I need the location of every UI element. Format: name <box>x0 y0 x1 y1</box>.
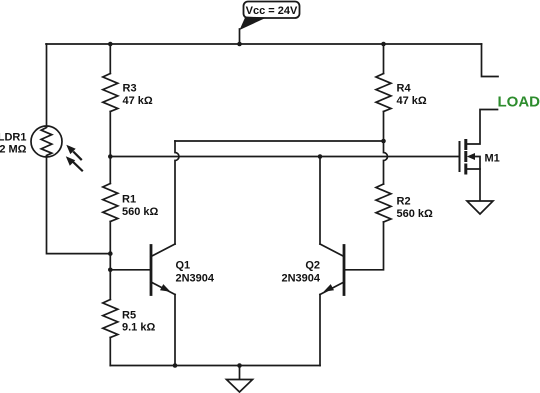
wire R2 bottom lead to Q2 base <box>344 222 384 270</box>
wire Q1 collector riser with hop over node A net <box>175 141 179 244</box>
junction node A at R3/R1 <box>108 154 113 159</box>
svg-text:Vcc = 24V: Vcc = 24V <box>246 5 298 17</box>
svg-text:2 MΩ: 2 MΩ <box>0 144 27 156</box>
junction R4 top on Vcc rail <box>381 42 386 47</box>
junction node C LDR tap <box>108 251 113 256</box>
wire emitter bottom rail <box>110 365 320 367</box>
power flag Vcc callout <box>240 2 300 45</box>
transistor Q1 <box>151 244 175 295</box>
svg-text:Q1: Q1 <box>176 260 191 272</box>
junction R3 top on Vcc rail <box>108 42 113 47</box>
svg-text:47 kΩ: 47 kΩ <box>397 95 427 107</box>
svg-text:R4: R4 <box>397 83 412 95</box>
transistor Q2 <box>320 244 344 295</box>
svg-text:R5: R5 <box>122 310 136 322</box>
svg-text:560 kΩ: 560 kΩ <box>122 206 159 218</box>
svg-text:Q2: Q2 <box>305 260 320 272</box>
wire node A horizontal net to M1 gate <box>110 156 459 158</box>
ground bottom rail <box>227 366 253 393</box>
wire node B down to R2 with hop over node A net <box>384 141 388 184</box>
svg-text:R3: R3 <box>123 83 137 95</box>
wire Vcc drop to upper load terminal stub <box>482 44 499 77</box>
junction Vcc callout tap <box>237 42 242 47</box>
junction ground tap on bottom rail <box>237 363 242 368</box>
wire R3 top lead <box>109 44 111 74</box>
resistor R5 <box>103 300 118 338</box>
wire LDR1 bottom lead to node C <box>47 157 111 254</box>
ground M1 source <box>467 201 493 214</box>
svg-text:M1: M1 <box>485 153 500 165</box>
wire Q1 base lead <box>110 269 151 271</box>
wire Q2 emitter lead <box>319 295 321 366</box>
svg-text:47 kΩ: 47 kΩ <box>123 95 153 107</box>
wire R4 bottom lead to node B <box>383 112 385 142</box>
wire LDR1 top lead <box>46 44 48 126</box>
svg-text:R1: R1 <box>122 194 136 206</box>
wire R4 top lead <box>383 44 385 74</box>
svg-text:560 kΩ: 560 kΩ <box>397 208 434 220</box>
photoresistor LDR1 <box>31 126 82 171</box>
wire node B horizontal net (Q1 collector to R4/R2) <box>175 140 384 142</box>
wire R3 bottom lead to node A <box>109 112 111 157</box>
junction node C Q1 base tap <box>108 268 113 273</box>
svg-text:2N3904: 2N3904 <box>176 273 215 285</box>
svg-text:LOAD: LOAD <box>498 93 540 110</box>
resistor R4 <box>376 74 391 112</box>
wire Q1 emitter lead <box>174 295 176 366</box>
svg-text:R2: R2 <box>397 196 411 208</box>
wire Q2 collector riser to node A net <box>319 157 321 245</box>
mosfet M1 <box>460 110 498 202</box>
svg-text:LDR1: LDR1 <box>0 131 27 143</box>
junction node B at R4/R2 <box>381 139 386 144</box>
wire node A to R1 top <box>109 157 111 184</box>
resistor R1 <box>103 184 118 222</box>
svg-text:2N3904: 2N3904 <box>281 273 320 285</box>
junction Q2 collector on node A net <box>318 154 323 159</box>
resistor R3 <box>103 74 118 112</box>
resistor R2 <box>376 184 391 222</box>
svg-text:9.1 kΩ: 9.1 kΩ <box>122 322 155 334</box>
wire R5 bottom lead <box>109 338 111 366</box>
wire Vcc top rail <box>46 43 482 45</box>
junction Q1 emitter on bottom rail <box>173 363 178 368</box>
wire R1 bottom lead through node C to R5 top <box>109 222 111 300</box>
